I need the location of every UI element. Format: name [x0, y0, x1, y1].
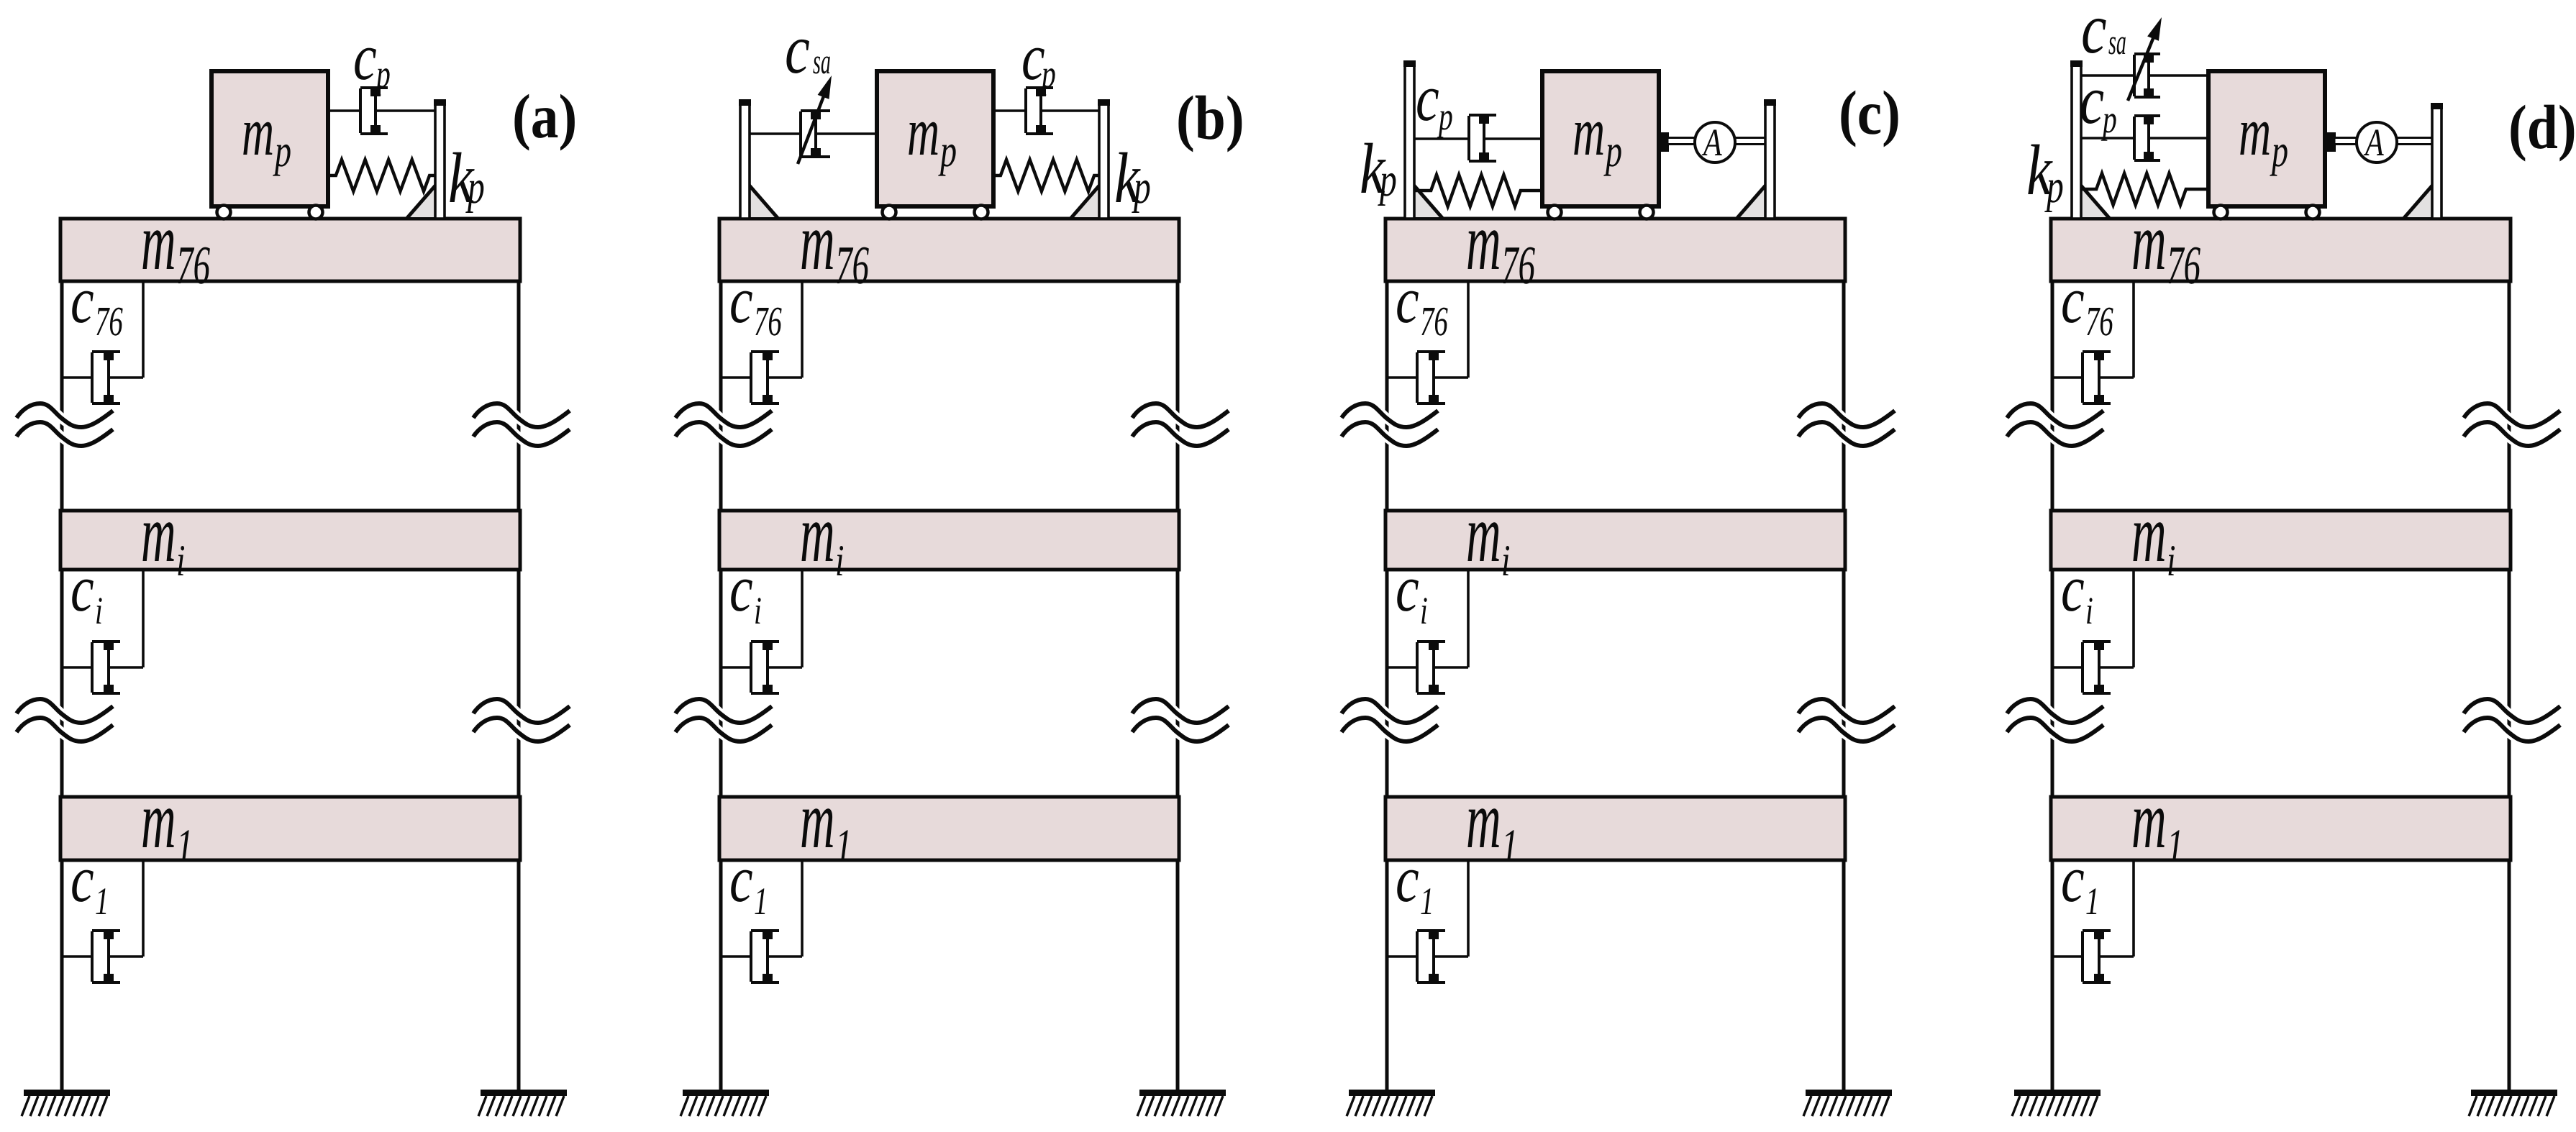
svg-text:76: 76 [2167, 235, 2200, 296]
svg-text:p: p [465, 161, 485, 214]
svg-text:1: 1 [2085, 880, 2099, 923]
ground support right (a) [481, 1090, 567, 1096]
svg-text:(b): (b) [1176, 83, 1244, 152]
column break marks upper (d) [2007, 403, 2103, 427]
right wall bracket (c) [1739, 187, 1767, 217]
svg-text:(a): (a) [512, 81, 577, 151]
spring kp (b) [993, 160, 1099, 191]
floor slab m1 (d) [2051, 797, 2511, 860]
right column (a) [517, 281, 521, 1091]
right wall bracket (b) [1073, 187, 1101, 217]
rollers under mp (d) [2214, 206, 2228, 219]
svg-text:c: c [1396, 842, 1419, 916]
damper ci (d) [2132, 570, 2135, 667]
svg-text:c: c [2080, 61, 2104, 138]
svg-text:p: p [2270, 125, 2288, 176]
left column (a) [60, 281, 64, 1091]
svg-text:m: m [800, 774, 835, 865]
floor slab mi (d) [2051, 511, 2511, 570]
damper c1 (c) [1467, 860, 1470, 957]
damper c76 (d) [2132, 281, 2135, 378]
svg-text:c: c [2061, 552, 2085, 625]
svg-text:m: m [141, 774, 176, 865]
svg-text:c: c [70, 842, 94, 916]
svg-text:m: m [1573, 93, 1605, 170]
spring kp (a) [329, 160, 435, 191]
svg-text:i: i [835, 537, 844, 585]
left column (b) [719, 281, 723, 1091]
damper cp (b) [993, 109, 1026, 111]
floor slab m1 (b) [719, 797, 1179, 860]
damper cp (d) [2081, 137, 2134, 139]
svg-text:m: m [2131, 196, 2167, 287]
damper c1 (d) [2132, 860, 2135, 957]
floor slab mi (a) [60, 511, 520, 570]
ground support left (b) [683, 1090, 769, 1096]
floor slab m76 (d) [2051, 219, 2511, 281]
svg-text:A: A [2364, 121, 2385, 164]
svg-text:i: i [1501, 537, 1510, 585]
svg-text:76: 76 [1420, 298, 1448, 344]
svg-text:m: m [907, 93, 939, 170]
svg-text:1: 1 [95, 880, 109, 923]
column break marks upper (b) [675, 403, 772, 427]
svg-text:c: c [785, 11, 810, 88]
left column (d) [2051, 281, 2054, 1091]
left wall bracket (b) [748, 187, 776, 217]
svg-text:sa: sa [2108, 22, 2126, 62]
svg-text:A: A [1702, 121, 1723, 164]
semi-active damper csa (b) [750, 132, 801, 134]
svg-text:c: c [2081, 0, 2107, 68]
floor slab m76 (b) [719, 219, 1179, 281]
right column (c) [1842, 281, 1846, 1091]
svg-text:(c): (c) [1839, 78, 1901, 147]
left wall bracket (d) [2080, 187, 2108, 217]
svg-text:p: p [1039, 52, 1056, 96]
svg-text:m: m [2131, 488, 2167, 579]
spring kp (c) [1414, 175, 1542, 206]
svg-text:p: p [1437, 94, 1453, 138]
svg-text:p: p [1132, 161, 1151, 214]
svg-text:p: p [2101, 97, 2117, 141]
svg-text:76: 76 [835, 235, 869, 296]
floor slab m76 (c) [1385, 219, 1845, 281]
floor slab mi (b) [719, 511, 1179, 570]
damper c1 (b) [801, 860, 804, 957]
column break marks lower (d) [2007, 699, 2103, 723]
semi-active damper csa (d) [2081, 74, 2134, 76]
right wall bracket (d) [2406, 187, 2434, 217]
svg-text:1: 1 [176, 820, 194, 872]
damper ci (c) [1467, 570, 1470, 667]
rollers under mp (c) [1548, 206, 1562, 219]
svg-text:76: 76 [1501, 235, 1535, 296]
mass mp block (a) [211, 71, 328, 206]
svg-text:p: p [1603, 125, 1622, 176]
ground support right (b) [1139, 1090, 1226, 1096]
damper ci (b) [801, 570, 804, 667]
svg-text:c: c [1396, 552, 1419, 625]
svg-text:c: c [353, 20, 377, 93]
rollers under mp (a) [217, 206, 231, 219]
svg-text:1: 1 [2167, 820, 2184, 872]
svg-text:p: p [938, 125, 957, 176]
svg-text:m: m [2239, 93, 2271, 170]
svg-text:(d): (d) [2508, 92, 2576, 162]
svg-text:76: 76 [95, 298, 123, 344]
svg-text:c: c [2061, 842, 2085, 916]
left wall bracket (c) [1413, 187, 1441, 217]
svg-text:1: 1 [754, 880, 768, 923]
floor slab m1 (c) [1385, 797, 1845, 860]
ground support left (a) [24, 1090, 110, 1096]
svg-text:76: 76 [754, 298, 782, 344]
floor slab m76 (a) [60, 219, 520, 281]
svg-text:76: 76 [176, 235, 210, 296]
svg-text:i: i [95, 589, 103, 632]
mass mp block (b) [877, 71, 993, 206]
svg-text:i: i [176, 537, 185, 585]
spring kp (d) [2081, 173, 2208, 205]
svg-text:p: p [273, 125, 291, 176]
column break marks upper (a) [17, 403, 113, 427]
svg-text:c: c [70, 552, 94, 625]
svg-text:p: p [1378, 154, 1397, 206]
column break marks lower (a) [17, 699, 113, 723]
svg-text:m: m [242, 93, 274, 170]
damper c76 (c) [1467, 281, 1470, 378]
damper c76 (a) [142, 281, 145, 378]
svg-text:m: m [141, 488, 176, 579]
svg-text:c: c [2061, 263, 2085, 337]
ground support right (d) [2471, 1090, 2557, 1096]
svg-text:c: c [729, 842, 753, 916]
right column (b) [1176, 281, 1180, 1091]
right column (d) [2508, 281, 2511, 1091]
damper cp (a) [329, 109, 360, 111]
actuator A (d) [2324, 132, 2336, 152]
svg-text:c: c [70, 263, 94, 337]
floor slab m1 (a) [60, 797, 520, 860]
mass mp block (c) [1542, 71, 1659, 206]
svg-text:m: m [141, 196, 176, 287]
svg-text:m: m [1466, 196, 1501, 287]
actuator A (c) [1657, 132, 1669, 152]
ground support right (c) [1806, 1090, 1892, 1096]
svg-text:76: 76 [2085, 298, 2113, 344]
svg-text:c: c [1396, 263, 1419, 337]
svg-text:p: p [374, 52, 391, 96]
damper c1 (a) [142, 860, 145, 957]
ground support left (c) [1349, 1090, 1435, 1096]
svg-text:c: c [729, 552, 753, 625]
damper cp (c) [1414, 137, 1469, 140]
svg-text:sa: sa [813, 41, 831, 81]
mass mp block (d) [2208, 71, 2325, 206]
svg-text:m: m [1466, 488, 1501, 579]
wall bracket (a) [409, 187, 437, 217]
floor slab mi (c) [1385, 511, 1845, 570]
svg-text:c: c [729, 263, 753, 337]
svg-text:i: i [1420, 589, 1428, 632]
svg-text:i: i [2167, 537, 2175, 585]
svg-text:i: i [754, 589, 762, 632]
svg-text:c: c [1416, 61, 1439, 134]
svg-text:1: 1 [835, 820, 852, 872]
rollers under mp (b) [883, 206, 896, 219]
svg-text:1: 1 [1420, 880, 1434, 923]
svg-text:p: p [2044, 160, 2064, 213]
ground support left (d) [2014, 1090, 2101, 1096]
svg-text:1: 1 [1501, 820, 1519, 872]
column break marks lower (c) [1342, 699, 1438, 723]
svg-text:m: m [800, 488, 835, 579]
left column (c) [1385, 281, 1389, 1091]
column break marks lower (b) [675, 699, 772, 723]
column break marks upper (c) [1342, 403, 1438, 427]
svg-text:m: m [1466, 774, 1501, 865]
svg-text:i: i [2085, 589, 2093, 632]
damper c76 (b) [801, 281, 804, 378]
svg-text:m: m [2131, 774, 2167, 865]
svg-text:m: m [800, 196, 835, 287]
damper ci (a) [142, 570, 145, 667]
